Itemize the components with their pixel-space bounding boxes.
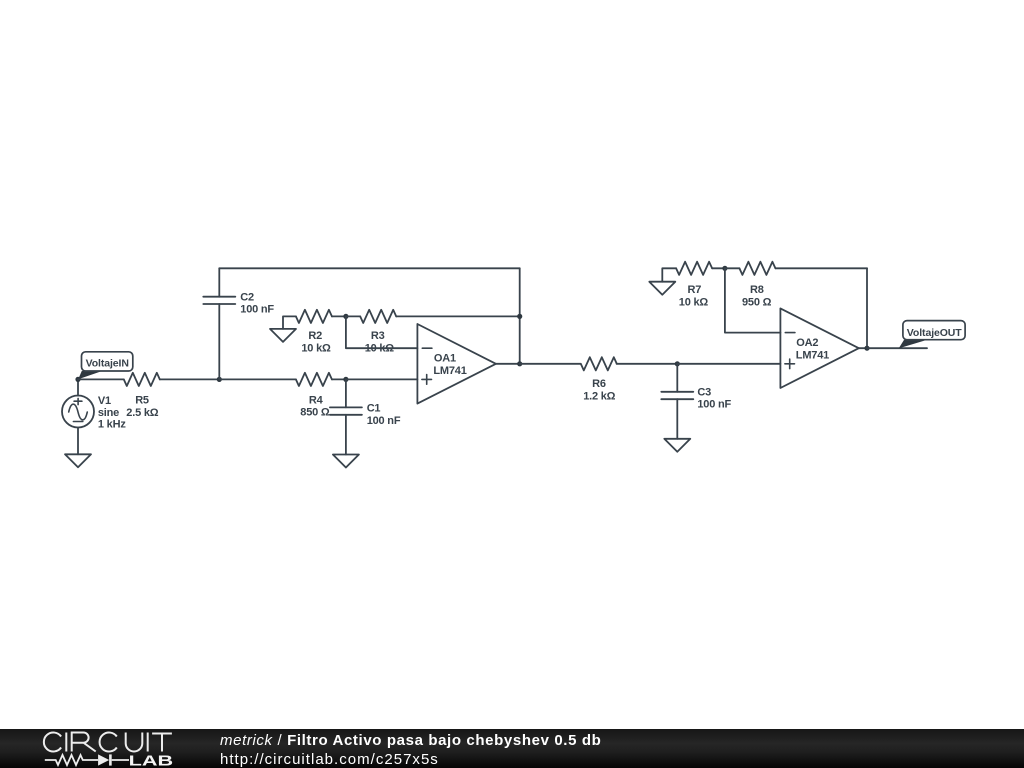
CircuitLab logo: [0, 729, 200, 768]
svg-text:10 kΩ: 10 kΩ: [679, 297, 709, 309]
label R3 value: [365, 330, 395, 354]
svg-text:R8: R8: [750, 284, 764, 296]
capacitor C1: [330, 407, 362, 414]
wire: R2-R3 junction down and right to OA1 minus input: [346, 316, 418, 348]
svg-text:OA2: OA2: [796, 337, 818, 349]
svg-text:R2: R2: [308, 330, 322, 342]
wire: C1 to ground: [345, 415, 347, 455]
svg-text:1 kHz: 1 kHz: [98, 419, 126, 431]
label R7 value: [679, 284, 709, 309]
label OA2 LM741: [796, 337, 829, 361]
node R3-feedback junction dot: [517, 314, 522, 319]
svg-text:OA1: OA1: [434, 353, 456, 365]
node C2 bottom junction dot: [217, 377, 222, 382]
svg-text:V1: V1: [98, 395, 111, 407]
wire: C1 node to OA1 plus input: [346, 378, 418, 380]
wire: R3 to feedback rail: [396, 315, 520, 317]
resistor R2: [296, 310, 332, 323]
label R2 value: [301, 330, 331, 354]
label R6 value: [583, 378, 615, 403]
node C3 top junction dot: [675, 361, 680, 366]
wire: ground bend to R2: [283, 316, 296, 329]
wire: V1 bottom lead to ground: [77, 428, 79, 455]
svg-text:LAB: LAB: [129, 752, 174, 768]
svg-text:R4: R4: [309, 395, 324, 407]
svg-text:100 nF: 100 nF: [697, 398, 731, 410]
wire: R7 to R8 junction: [712, 267, 725, 269]
wire: top feedback rail stage 1: [219, 267, 519, 269]
svg-text:LM741: LM741: [796, 350, 829, 362]
footer bar: [0, 729, 1024, 768]
wire: ground bend to R7: [662, 268, 676, 281]
wire: R5 to C2 node: [160, 378, 220, 380]
wire: R2 to R3 junction: [332, 315, 346, 317]
wire: C1 node down to capacitor: [345, 379, 347, 407]
svg-text:1.2 kΩ: 1.2 kΩ: [583, 391, 615, 403]
ground at R2: [270, 329, 296, 342]
label C2 value: [240, 292, 274, 316]
svg-text:2.5 kΩ: 2.5 kΩ: [126, 407, 158, 419]
svg-text:VoltajeIN: VoltajeIN: [86, 358, 129, 370]
flag label VoltajeOUT: [899, 321, 965, 349]
svg-text:C2: C2: [240, 292, 254, 304]
wire: junction to R3: [346, 315, 360, 317]
wire: C2 branch vertical from node up to capacitor: [218, 304, 220, 379]
node VoltajeIN junction dot: [75, 377, 80, 382]
svg-text:10 kΩ: 10 kΩ: [301, 342, 331, 354]
resistor R4: [296, 373, 332, 386]
flag label VoltajeIN: [78, 352, 133, 380]
svg-text:850 Ω: 850 Ω: [300, 406, 330, 418]
svg-text:R6: R6: [592, 378, 606, 390]
node C1 top junction dot: [343, 377, 348, 382]
wire: C2 node to R4: [219, 378, 296, 380]
label R8 value: [742, 284, 772, 309]
svg-text:C3: C3: [697, 386, 711, 398]
node OA2 output junction dot: [864, 346, 869, 351]
svg-text:R5: R5: [135, 394, 149, 406]
wire: OA2 output to VoltajeOUT: [867, 347, 927, 349]
wire: junction to R8: [725, 267, 740, 269]
svg-text:100 nF: 100 nF: [367, 415, 401, 427]
footer title text: [220, 732, 601, 749]
svg-text:R3: R3: [371, 330, 385, 342]
resistor R7: [676, 262, 712, 275]
svg-text:VoltajeOUT: VoltajeOUT: [907, 327, 962, 339]
wire: R7-R8 junction down and right to OA2 minus input: [725, 268, 781, 332]
capacitor C3: [661, 392, 693, 399]
ground below V1: [65, 454, 91, 467]
wire: C3 node to OA2 plus input: [677, 363, 780, 365]
node OA1 output junction dot: [517, 361, 522, 366]
wire: right feedback rail down to OA2 output: [866, 268, 868, 348]
wire: R6 to C3 node: [617, 363, 678, 365]
svg-text:C1: C1: [367, 402, 381, 414]
label C3 value: [697, 386, 731, 410]
wire: OA2 output to feedback node: [859, 347, 867, 349]
resistor R5: [124, 373, 160, 386]
footer url text: [220, 751, 439, 768]
svg-text:R7: R7: [688, 284, 702, 296]
svg-text:100 nF: 100 nF: [240, 303, 274, 315]
wire: OA1 output to R6: [520, 363, 581, 365]
op-amp OA2: [780, 308, 858, 388]
wire: R8 to right feedback rail: [775, 267, 867, 269]
wire: C3 node down to capacitor: [676, 364, 678, 392]
ground below C1: [333, 455, 359, 468]
wire: C3 to ground: [676, 399, 678, 439]
wire: C2 up to top feedback rail: [218, 268, 220, 296]
ground at R7: [649, 282, 675, 295]
resistor R6: [581, 357, 617, 370]
node R2-R3 junction dot: [343, 314, 348, 319]
wire: R4 to C1 node: [332, 378, 346, 380]
label R5 value: [126, 394, 158, 419]
wire: V1 top lead to input node: [77, 379, 79, 395]
label OA1 LM741: [433, 353, 466, 377]
label V1 value: [98, 395, 126, 431]
svg-text:sine: sine: [98, 407, 119, 419]
label C1 value: [367, 402, 401, 427]
svg-text:950 Ω: 950 Ω: [742, 297, 772, 309]
ground below C3: [664, 439, 690, 452]
label R4 value: [300, 395, 330, 419]
svg-text:LM741: LM741: [433, 365, 466, 377]
node R7-R8 junction dot: [722, 266, 727, 271]
op-amp OA1: [417, 324, 496, 404]
capacitor C2: [203, 297, 235, 304]
resistor R8: [739, 262, 775, 275]
voltage source V1: [62, 396, 94, 428]
resistor R3: [360, 310, 396, 323]
wire: feedback rail down to OA1 output: [519, 268, 521, 364]
wire: input node to R5: [78, 378, 124, 380]
wire: OA1 output to feedback node: [496, 363, 520, 365]
